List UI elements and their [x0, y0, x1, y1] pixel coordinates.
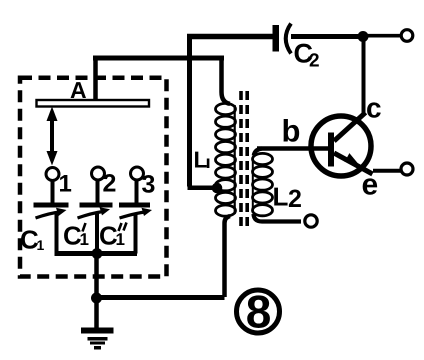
svg-text:2: 2: [103, 170, 117, 198]
svg-text:1: 1: [80, 230, 89, 249]
svg-text:3: 3: [142, 171, 156, 199]
svg-text:c: c: [366, 93, 382, 124]
svg-text:1: 1: [116, 230, 125, 249]
svg-text:L: L: [194, 147, 208, 173]
svg-text:1: 1: [59, 171, 72, 198]
svg-text:2: 2: [288, 185, 302, 213]
svg-text:8: 8: [246, 286, 272, 338]
svg-text:1: 1: [37, 237, 45, 253]
svg-text:b: b: [282, 114, 301, 149]
svg-text:A: A: [70, 77, 87, 103]
svg-text:e: e: [362, 169, 379, 202]
svg-text:L: L: [273, 182, 289, 212]
svg-text:2: 2: [309, 51, 320, 72]
